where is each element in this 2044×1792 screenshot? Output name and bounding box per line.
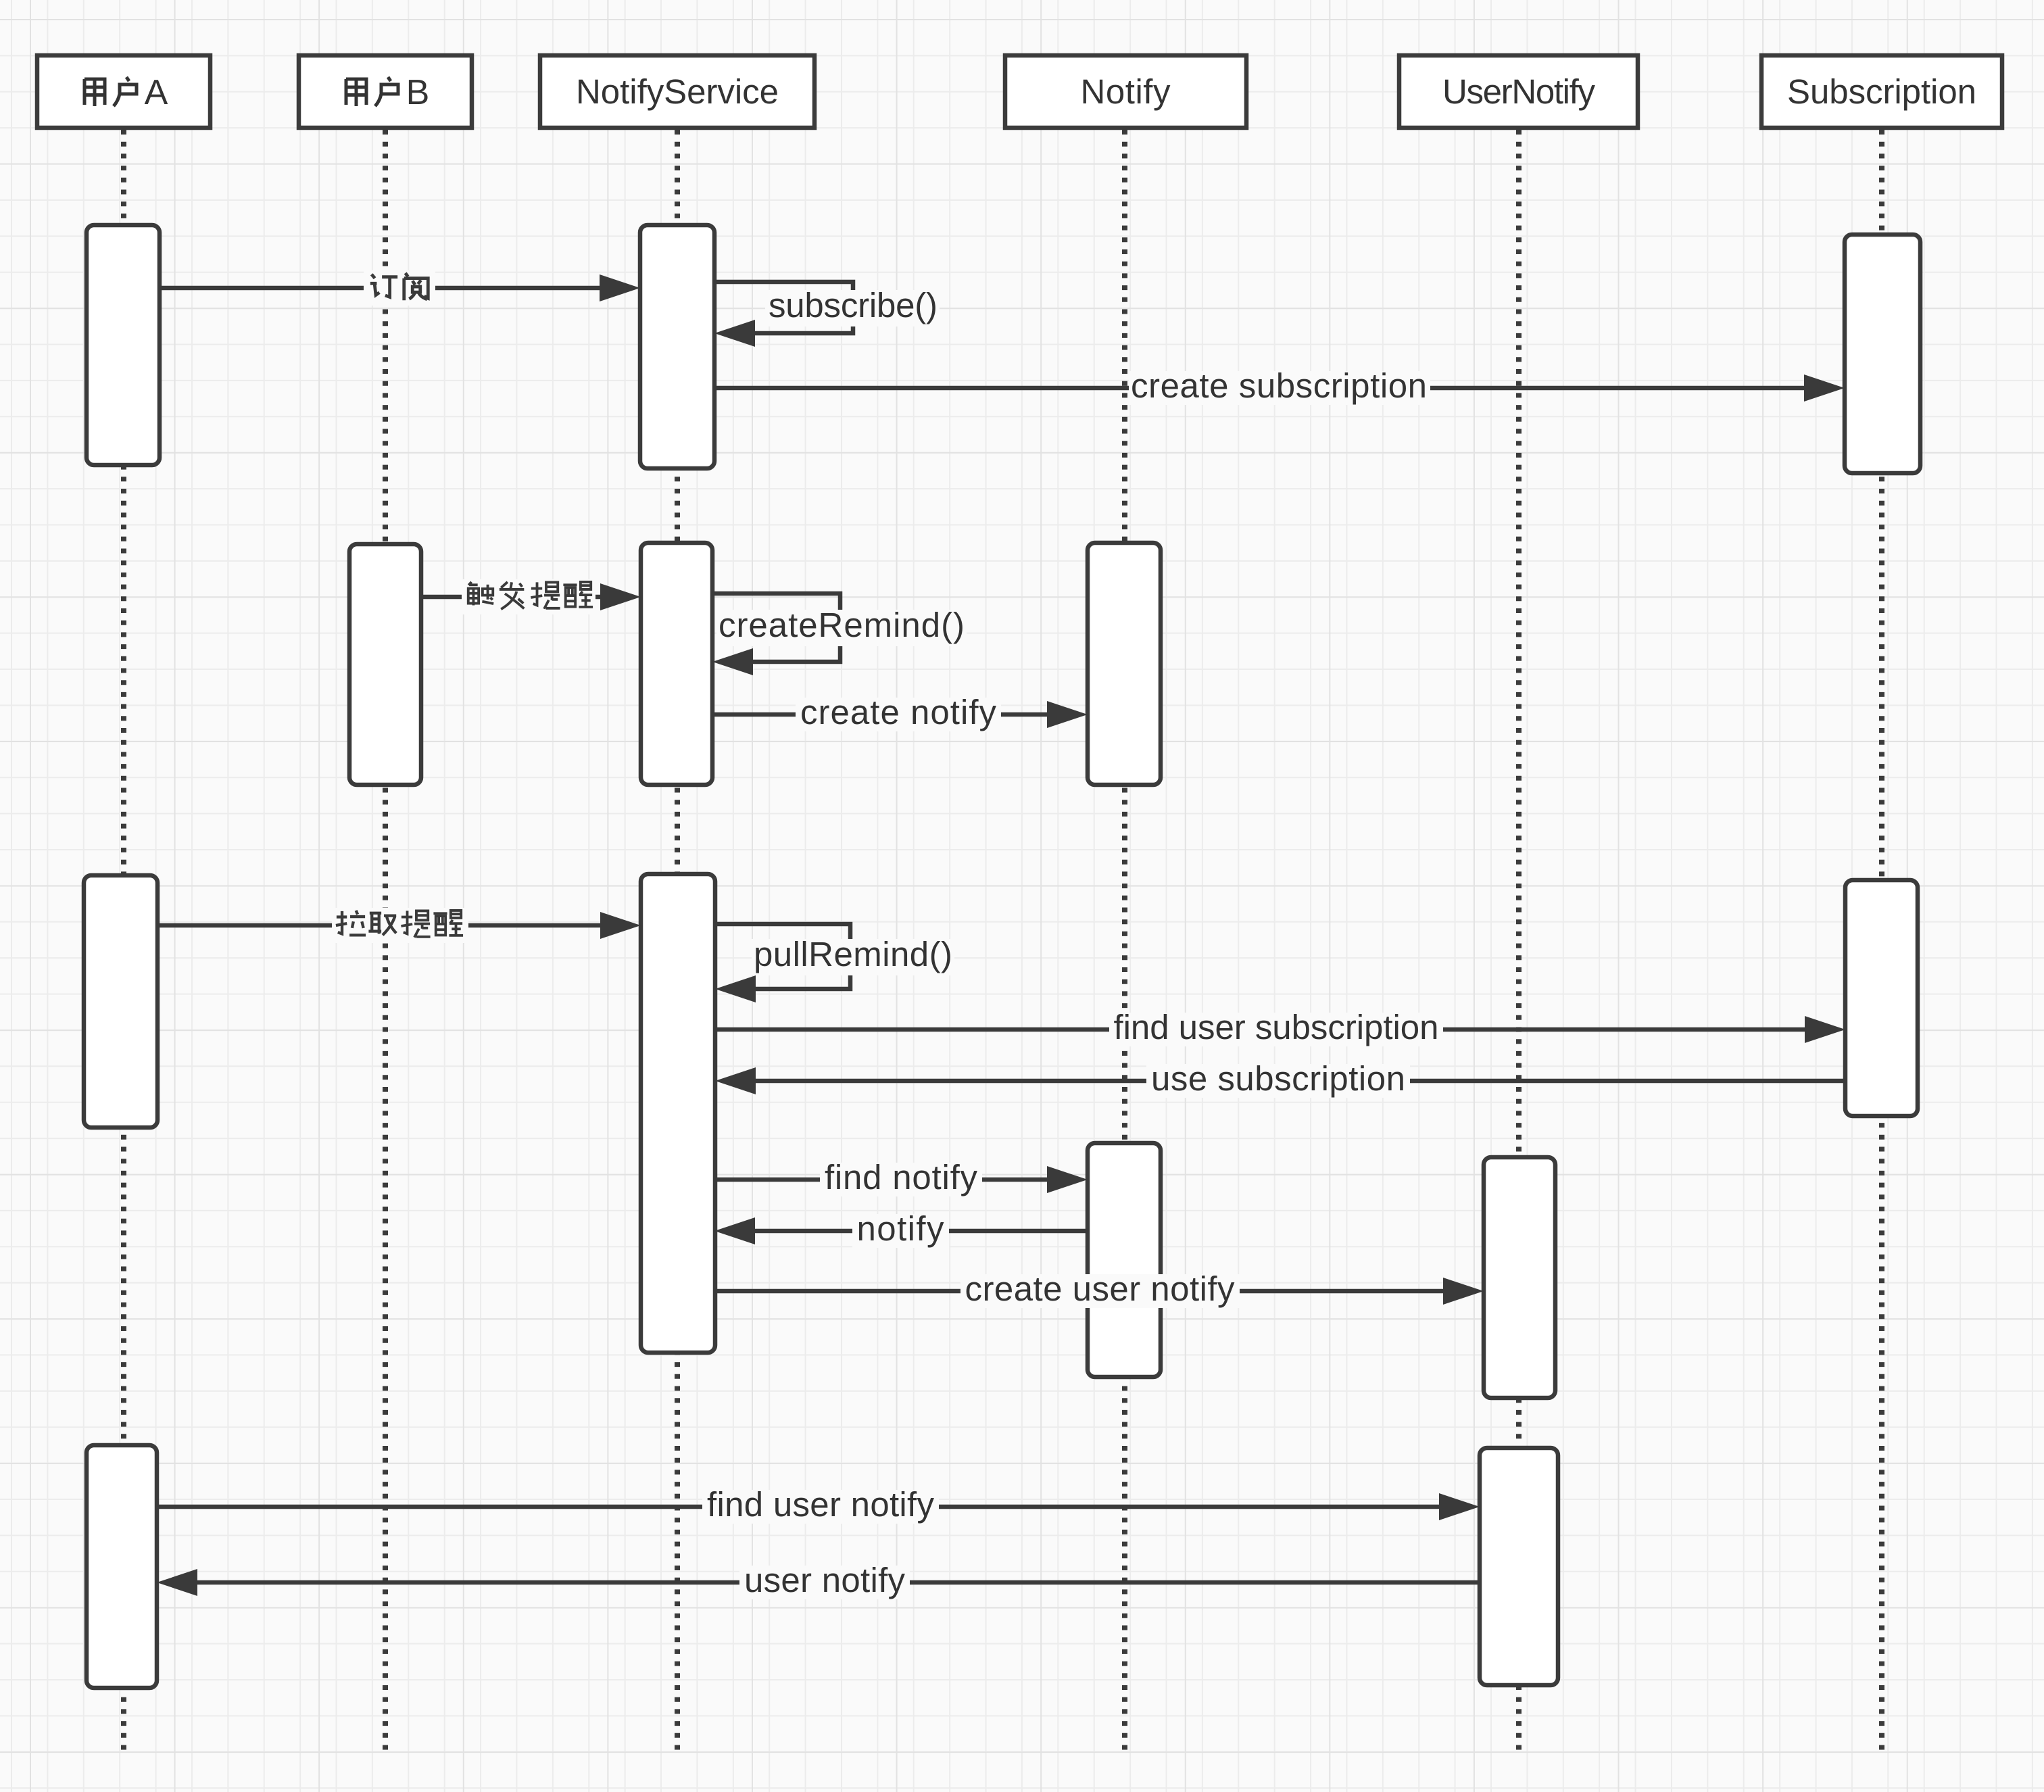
svg-text:subscribe(): subscribe() (769, 286, 938, 324)
svg-text:A: A (145, 73, 168, 112)
svg-text:create notify: create notify (800, 693, 997, 731)
svg-text:UserNotify: UserNotify (1442, 72, 1596, 111)
svg-text:notify: notify (857, 1209, 945, 1248)
svg-text:user notify: user notify (744, 1561, 906, 1599)
svg-text:create subscription: create subscription (1131, 366, 1427, 405)
svg-text:find user notify: find user notify (707, 1485, 935, 1524)
svg-text:create user notify: create user notify (965, 1269, 1236, 1308)
svg-text:use subscription: use subscription (1151, 1059, 1405, 1098)
svg-text:Notify: Notify (1081, 72, 1171, 111)
svg-text:createRemind(): createRemind() (719, 606, 965, 644)
svg-text:NotifyService: NotifyService (576, 72, 779, 111)
svg-text:find user subscription: find user subscription (1114, 1008, 1439, 1046)
svg-text:B: B (406, 73, 430, 112)
svg-text:Subscription: Subscription (1787, 72, 1976, 111)
svg-text:pullRemind(): pullRemind() (754, 935, 952, 973)
svg-text:find notify: find notify (825, 1158, 978, 1196)
